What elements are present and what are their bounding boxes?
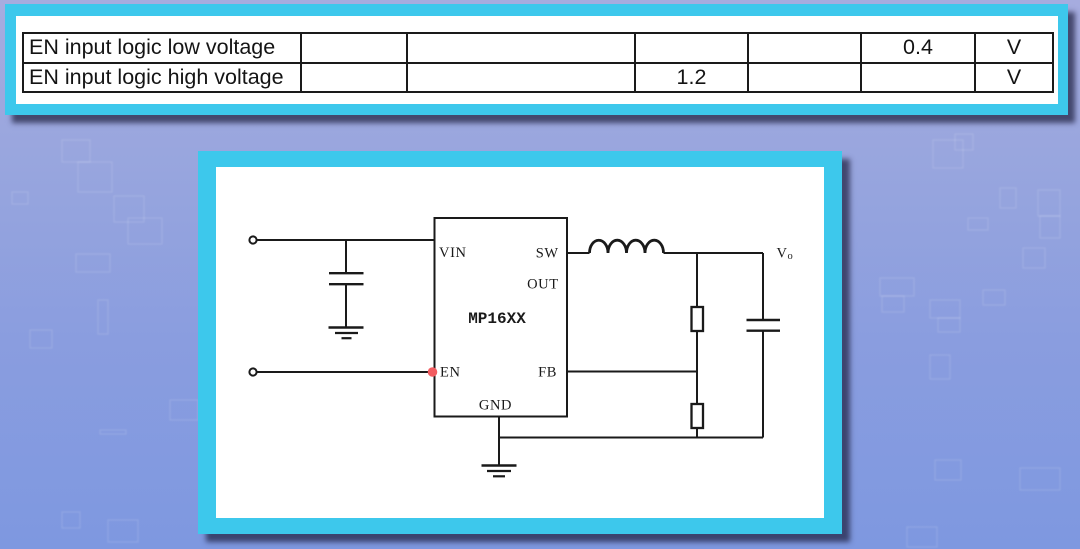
terminal input bbox=[249, 236, 256, 243]
wire bottom rail bbox=[499, 437, 763, 439]
resistor R1 bbox=[692, 307, 704, 331]
wire branch down to R1 bbox=[696, 253, 698, 307]
wire FB bbox=[567, 371, 697, 373]
wire EN input bbox=[257, 371, 432, 373]
wire output cap lower bbox=[762, 332, 764, 438]
svg-text:EN: EN bbox=[440, 365, 461, 381]
wire cap branch upper bbox=[345, 240, 347, 272]
svg-text:OUT: OUT bbox=[527, 277, 559, 293]
svg-text:MP16XX: MP16XX bbox=[468, 310, 526, 328]
svg-text:o: o bbox=[788, 251, 794, 262]
svg-text:VIN: VIN bbox=[439, 245, 467, 261]
wire output cap upper bbox=[762, 253, 764, 319]
wire VIN input bbox=[257, 239, 434, 241]
capacitor C2 plates bbox=[747, 319, 781, 321]
terminal EN bbox=[249, 368, 256, 375]
circuit clip box (cyan) bbox=[198, 151, 842, 534]
wire top to output bbox=[664, 252, 764, 254]
wire R1 to R2 bbox=[696, 331, 698, 404]
ground main bbox=[482, 464, 517, 466]
resistor R2 bbox=[692, 404, 704, 428]
wire cap branch lower bbox=[345, 285, 347, 327]
svg-text:FB: FB bbox=[538, 365, 557, 381]
wire GND stem bbox=[498, 417, 500, 466]
ground under C1 bbox=[329, 326, 364, 328]
inductor L1 bbox=[590, 240, 664, 253]
capacitor C1 plates bbox=[329, 272, 364, 274]
wire SW out bbox=[567, 252, 590, 254]
svg-text:GND: GND bbox=[479, 398, 512, 414]
svg-text:V: V bbox=[777, 246, 788, 262]
wire R2 to bottom bbox=[696, 428, 698, 438]
node EN (red dot) bbox=[428, 367, 438, 377]
svg-text:SW: SW bbox=[536, 246, 559, 262]
op IC U1 MP16XX body bbox=[435, 218, 568, 417]
table clip box (cyan) bbox=[5, 4, 1068, 115]
